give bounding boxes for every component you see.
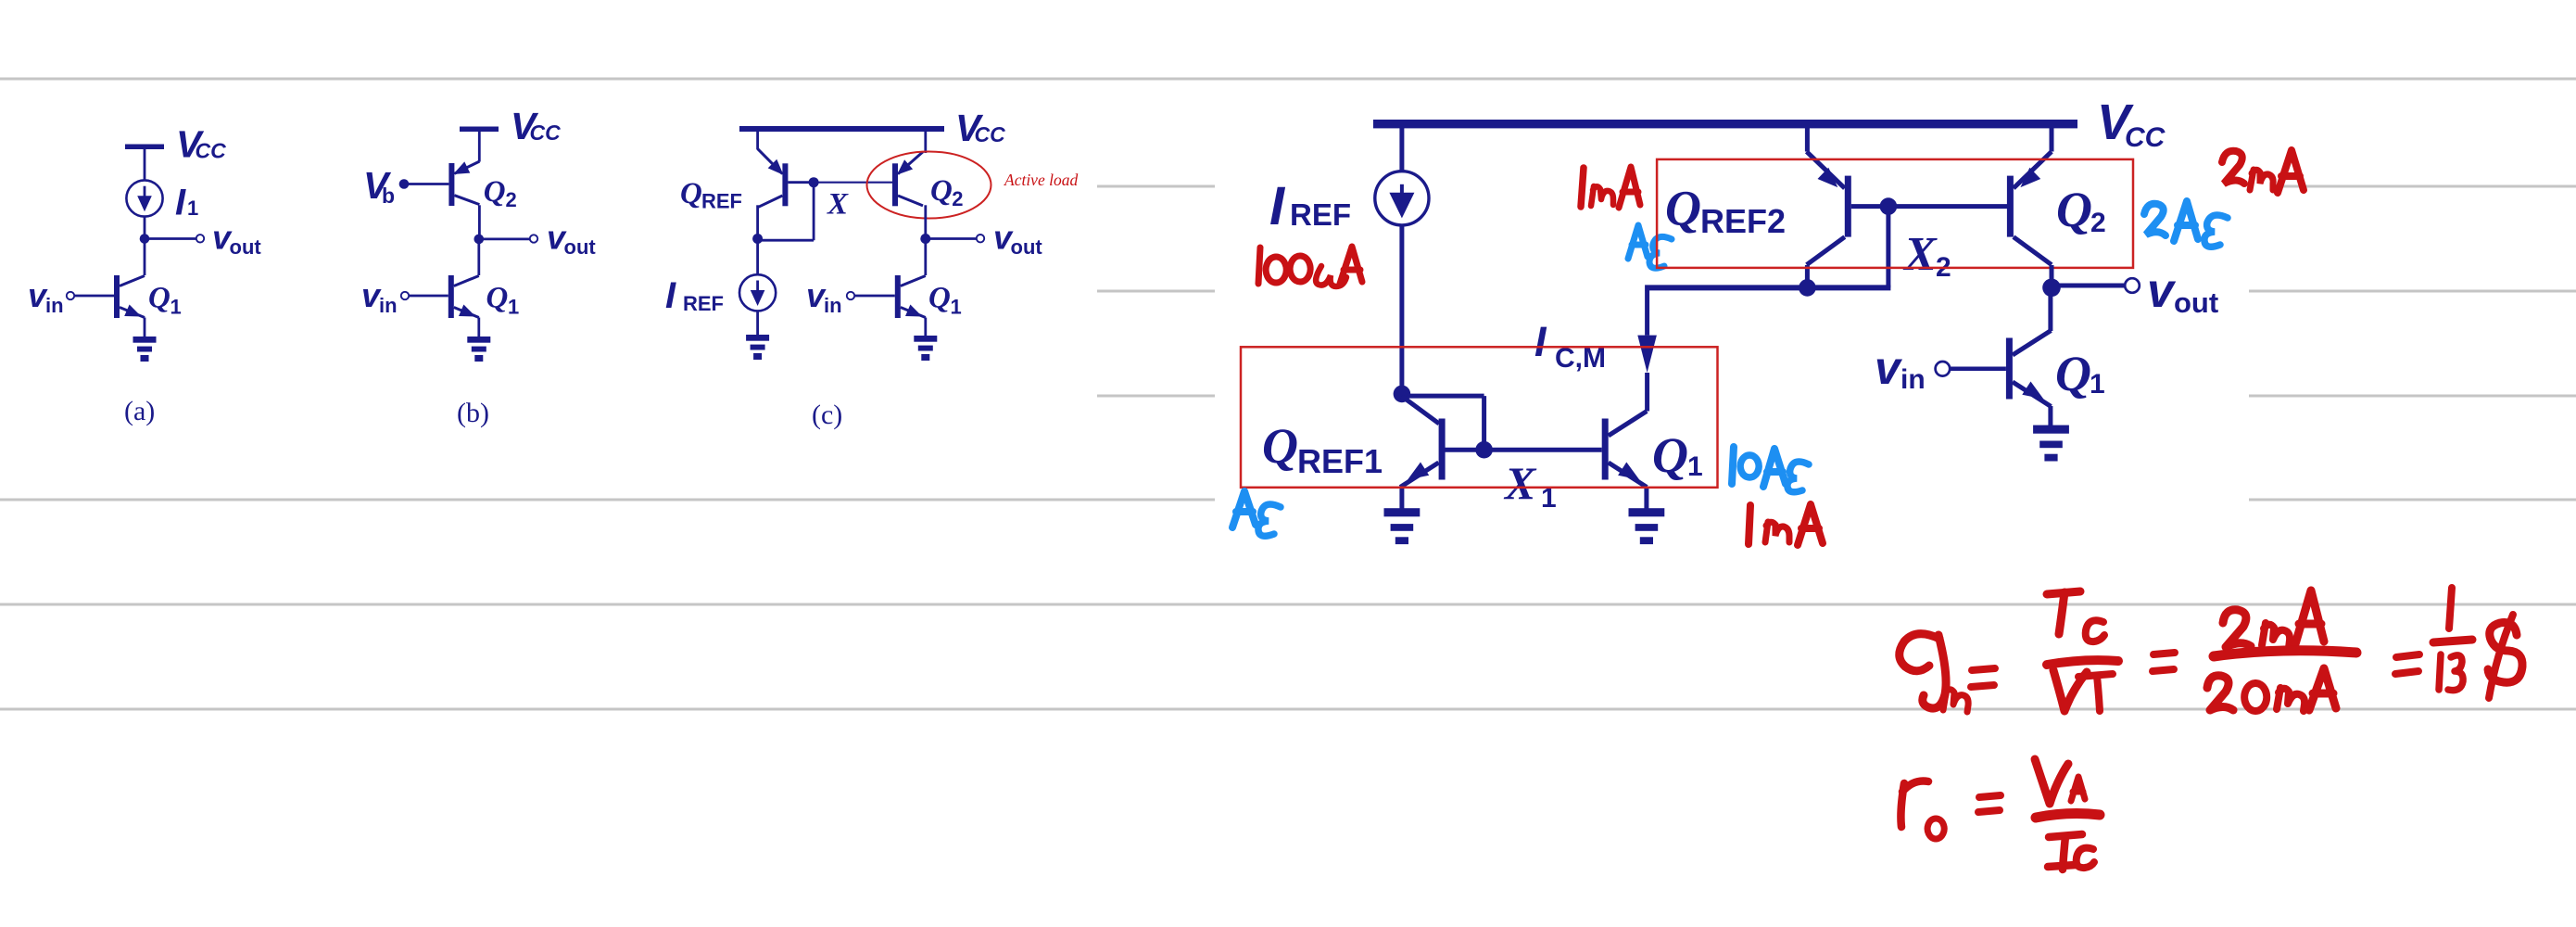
svg-text:in: in xyxy=(1900,364,1926,395)
svg-text:v: v xyxy=(2147,264,2177,318)
circuit (c): wire node to IREF source xyxy=(756,239,759,274)
big circuit: transistor QREF1 (npn diode-connected, faces left) xyxy=(1400,419,1446,488)
big circuit: X2 horizontal wire xyxy=(1645,285,1890,290)
circuit (a): collector wire xyxy=(144,239,146,276)
svg-text:I: I xyxy=(1269,176,1286,236)
big circuit: X2 node dot xyxy=(1880,197,1898,215)
circuit (c): node X label xyxy=(827,188,849,222)
circuit (b): vin input wire xyxy=(409,295,448,298)
big circuit: wire Q1 emitter to ground xyxy=(2048,406,2052,425)
big circuit: Q1 driver label xyxy=(2055,346,2105,401)
circuit (c): Q1 label xyxy=(928,282,962,319)
svg-text:1: 1 xyxy=(2090,369,2105,400)
big circuit: Q2 label xyxy=(2056,182,2106,238)
circuit (c): diode connection wire X down-left xyxy=(758,183,814,241)
svg-text:REF: REF xyxy=(701,190,742,213)
circuit (c): wire node to vout terminal xyxy=(926,237,977,240)
circuit (a): ground xyxy=(133,337,157,362)
big circuit: wire Q2 collector to output node xyxy=(2050,265,2054,287)
svg-text:Q: Q xyxy=(1652,427,1688,483)
big circuit: wire Q1 mirror emitter to ground xyxy=(1644,488,1648,510)
circuit (b): vin terminal xyxy=(401,292,409,299)
svg-text:Active load: Active load xyxy=(1004,171,1078,189)
svg-text:REF: REF xyxy=(1290,197,1351,232)
big circuit: wire IREF to mirror node xyxy=(1399,225,1404,394)
circuit (c): emitter wire xyxy=(924,318,927,337)
big circuit: wire QREF1 collector to node xyxy=(1402,397,1439,425)
svg-text:in: in xyxy=(45,294,64,317)
big circuit: wire rail to QREF2 emitter xyxy=(1805,128,1810,152)
big circuit: ground under Q1 driver xyxy=(2033,425,2069,462)
circuit (a): vin input wire xyxy=(75,295,115,298)
svg-text:REF1: REF1 xyxy=(1297,442,1383,480)
circuit (c): wire node X to Q2 base (thin) xyxy=(814,182,892,184)
circuit (c): node X junction dot xyxy=(809,177,819,187)
circuit (c): wire Q2 collector to output node xyxy=(924,205,927,238)
big circuit: vin label xyxy=(1875,342,1926,395)
svg-text:2: 2 xyxy=(952,187,963,210)
big circuit: diode connection wire (node right, down to base) xyxy=(1402,396,1484,450)
circuit (c): output node junction xyxy=(920,234,930,244)
circuit (a): output node junction xyxy=(140,234,150,244)
svg-text:Q: Q xyxy=(2055,346,2091,401)
svg-text:(b): (b) xyxy=(457,398,489,428)
big circuit: transistor Q2 (pnp) xyxy=(2007,152,2052,265)
circuit (b): transistor Q1 xyxy=(448,275,479,318)
circuit (c): Vcc supply rail xyxy=(739,126,944,132)
circuit (b): Vcc label xyxy=(511,105,561,147)
svg-text:in: in xyxy=(379,294,398,317)
big circuit: output node dot xyxy=(2042,279,2061,298)
svg-text:I: I xyxy=(175,183,186,223)
circuit (c): QREF collector node dot xyxy=(752,234,763,244)
circuit (c): wire rail to Q2 emitter xyxy=(924,132,927,153)
circuit (b): caption xyxy=(457,398,489,428)
svg-text:out: out xyxy=(2174,286,2218,319)
big circuit: wire QREF2 collector down xyxy=(1805,265,1810,287)
handwritten formula: gm = Ic/VT = 2mA/20mA = 1/13 S (red) xyxy=(1900,588,2522,712)
big circuit: mirror collector node dot xyxy=(1394,386,1411,403)
svg-text:1: 1 xyxy=(508,296,519,319)
big circuit: transistor Q1 mirror (npn) xyxy=(1602,412,1648,488)
big circuit: IC,M current arrowhead xyxy=(1637,336,1657,373)
big circuit: vout label xyxy=(2147,264,2218,319)
circuit (a): caption xyxy=(124,396,155,426)
circuit (b): wire node to Q1 collector xyxy=(477,239,480,275)
circuit (a): Vcc supply bar xyxy=(125,145,164,181)
big circuit: IC,M wire (Q1 mirror collector up to X2 wire) xyxy=(1645,290,1649,412)
big circuit: wire X2 node down to X2 wire xyxy=(1886,207,1890,288)
big circuit: vin terminal xyxy=(1936,362,1951,376)
big circuit: QREF1 label xyxy=(1262,418,1383,480)
circuit (c): caption xyxy=(812,400,842,430)
circuit (b): Vb label xyxy=(363,164,395,208)
big circuit: X1 label xyxy=(1503,457,1557,514)
circuit (c): vin label xyxy=(806,276,842,317)
big circuit: transistor Q1 driver (npn) xyxy=(2006,331,2052,407)
svg-text:X: X xyxy=(1503,457,1537,509)
big circuit: base wire QREF1 to Q1 xyxy=(1442,448,1602,452)
svg-text:(c): (c) xyxy=(812,400,842,430)
svg-text:REF2: REF2 xyxy=(1700,202,1786,240)
circuit (a): wire node to vout terminal xyxy=(145,237,196,240)
big circuit: Q1 mirror label xyxy=(1652,427,1703,483)
circuit (b): transistor Q2 (pnp) xyxy=(448,161,479,206)
circuit (c): wire rail to QREF emitter xyxy=(756,132,759,149)
big circuit: wire rail to IREF xyxy=(1399,128,1404,171)
circuit (a): Vcc label xyxy=(176,123,226,166)
big circuit: vin input wire xyxy=(1950,367,2006,372)
svg-text:Q: Q xyxy=(680,177,702,210)
svg-text:v: v xyxy=(1875,342,1903,394)
big circuit: wire node to vout terminal xyxy=(2052,284,2125,288)
circuit (c): ground under IREF xyxy=(746,335,769,360)
big circuit: QREF2 label xyxy=(1665,181,1786,241)
circuit (b): output node junction xyxy=(474,235,485,245)
circuit (a): current source I1 xyxy=(126,180,162,216)
big circuit: handwritten 2AE (blue) xyxy=(2144,201,2228,247)
svg-text:1: 1 xyxy=(170,296,182,319)
circuit (c): wire QREF collector down xyxy=(756,205,759,238)
svg-text:I: I xyxy=(1534,318,1547,365)
big circuit: handwritten 1mA upper (red) xyxy=(1581,167,1640,208)
circuit (b): Q2 label xyxy=(484,175,517,211)
circuit (a): vin terminal xyxy=(67,292,74,299)
handwritten formula: ro = VA/Ic (red) xyxy=(1900,759,2100,870)
big circuit: base node dot of mirror xyxy=(1475,441,1493,459)
circuit (b): wire node to vout terminal xyxy=(479,237,530,240)
circuit (c): Active load handwritten label xyxy=(1004,171,1078,189)
svg-text:Q: Q xyxy=(1262,418,1298,474)
circuit (c): Vcc label xyxy=(955,107,1005,149)
circuit (b): Vb base wire and dot xyxy=(399,179,449,189)
circuit (c): vin input wire xyxy=(854,295,895,298)
circuit (a): I1 label xyxy=(175,183,198,223)
circuit (c): base wire QREF to node X xyxy=(788,181,814,184)
big circuit: handwritten 2mA (red) xyxy=(2222,150,2304,193)
svg-text:X: X xyxy=(827,188,849,222)
big circuit: QREF2 base wire to X2 node xyxy=(1851,204,1888,209)
svg-text:1: 1 xyxy=(1687,451,1703,482)
big circuit: wire QREF1 emitter to ground xyxy=(1399,488,1404,510)
circuit (a): transistor Q1 xyxy=(114,275,145,318)
circuit (b): ground xyxy=(467,337,490,362)
svg-text:I: I xyxy=(665,275,676,316)
big circuit: wire rail to Q2 emitter xyxy=(2050,128,2054,152)
big circuit: IC,M label xyxy=(1534,318,1606,374)
circuit (a): vout label xyxy=(212,219,261,260)
circuit (a): wire I1 to output node xyxy=(144,217,146,239)
big circuit: red annotation box around mirror pair xyxy=(1241,347,1718,488)
circuit (c): wire IREF to ground xyxy=(756,311,759,336)
svg-text:CC: CC xyxy=(975,122,1006,146)
big circuit: base wire X2 node to Q2 xyxy=(1888,204,2007,209)
circuit (c): QREF label xyxy=(680,177,742,213)
circuit (c): wire node to Q1 collector xyxy=(924,239,927,276)
big circuit: handwritten 10AE (blue) xyxy=(1732,447,1809,492)
svg-text:Q: Q xyxy=(928,282,951,315)
svg-text:CC: CC xyxy=(2125,122,2166,153)
circuit (b): vout terminal xyxy=(530,235,537,242)
circuit (b): Vcc supply bar xyxy=(460,127,499,162)
svg-text:Q: Q xyxy=(2056,182,2092,237)
big circuit: ground under QREF1 xyxy=(1384,508,1421,544)
svg-text:Q: Q xyxy=(148,282,170,315)
big circuit: Vcc label xyxy=(2097,95,2166,153)
svg-text:Q: Q xyxy=(1665,181,1701,236)
circuit (b): Q1 label xyxy=(486,282,520,319)
circuit (a): Q1 label xyxy=(148,282,182,319)
circuit (c): red circle around Q2 (active load) xyxy=(867,152,991,219)
circuit (c): current source IREF xyxy=(739,274,776,311)
circuit (a): emitter wire xyxy=(144,318,146,337)
circuit (c): vin terminal xyxy=(847,292,854,299)
circuit (c): transistor Q1 xyxy=(895,275,926,318)
circuit (b): emitter wire xyxy=(477,318,480,337)
svg-text:REF: REF xyxy=(683,292,724,315)
big circuit: handwritten AE upper (blue) xyxy=(1628,225,1672,268)
svg-text:b: b xyxy=(382,184,395,208)
svg-text:X: X xyxy=(1902,228,1938,281)
circuit (c): vout label xyxy=(993,219,1042,260)
big circuit: handwritten AE lower-left (blue) xyxy=(1232,491,1281,536)
big circuit: ground under Q1 mirror xyxy=(1629,508,1665,544)
svg-text:CC: CC xyxy=(530,121,562,145)
svg-text:Q: Q xyxy=(486,282,509,315)
circuit (c): IREF label xyxy=(665,275,724,316)
circuit (b): vout label xyxy=(547,219,596,260)
big circuit: QREF2 collector node dot xyxy=(1799,279,1816,297)
circuit (a): vin label xyxy=(28,276,64,317)
svg-text:(a): (a) xyxy=(124,396,155,426)
svg-text:out: out xyxy=(564,235,597,259)
circuit (a): vout terminal xyxy=(196,235,204,242)
circuit (b): vin label xyxy=(361,276,398,317)
big circuit: IREF label xyxy=(1269,176,1351,236)
big circuit: handwritten 1mA lower (red) xyxy=(1749,504,1823,545)
circuit (c): ground under Q1 xyxy=(914,336,937,361)
svg-text:in: in xyxy=(824,294,842,317)
big circuit: current source IREF xyxy=(1375,171,1429,225)
svg-text:out: out xyxy=(230,235,262,259)
circuit (b): wire Q2 collector to node xyxy=(478,205,481,239)
circuit (c): vout terminal xyxy=(977,235,984,242)
svg-text:2: 2 xyxy=(2090,208,2106,238)
circuit (c): transistor Q2 (pnp active load) xyxy=(892,152,923,207)
svg-text:out: out xyxy=(1011,235,1043,259)
big circuit: vout terminal xyxy=(2125,278,2140,293)
big circuit: Vcc supply rail xyxy=(1373,120,2077,128)
big circuit: transistor QREF2 (pnp diode-connected, faces right) xyxy=(1807,152,1851,265)
circuit (c): Q2 label xyxy=(930,174,964,210)
svg-text:CC: CC xyxy=(196,139,227,163)
svg-text:1: 1 xyxy=(951,296,962,319)
svg-text:Q: Q xyxy=(930,174,953,208)
svg-text:2: 2 xyxy=(506,188,517,211)
big circuit: handwritten 100uA (red) xyxy=(1258,247,1362,286)
big circuit: X2 label xyxy=(1902,228,1951,283)
svg-text:1: 1 xyxy=(187,197,198,220)
big circuit: red annotation box around QREF2 and Q2 xyxy=(1657,159,2133,268)
circuit (c): transistor QREF (pnp diode-connected) xyxy=(757,148,788,208)
svg-text:Q: Q xyxy=(484,175,506,209)
big circuit: wire output node down to Q1 collector xyxy=(2048,287,2052,331)
